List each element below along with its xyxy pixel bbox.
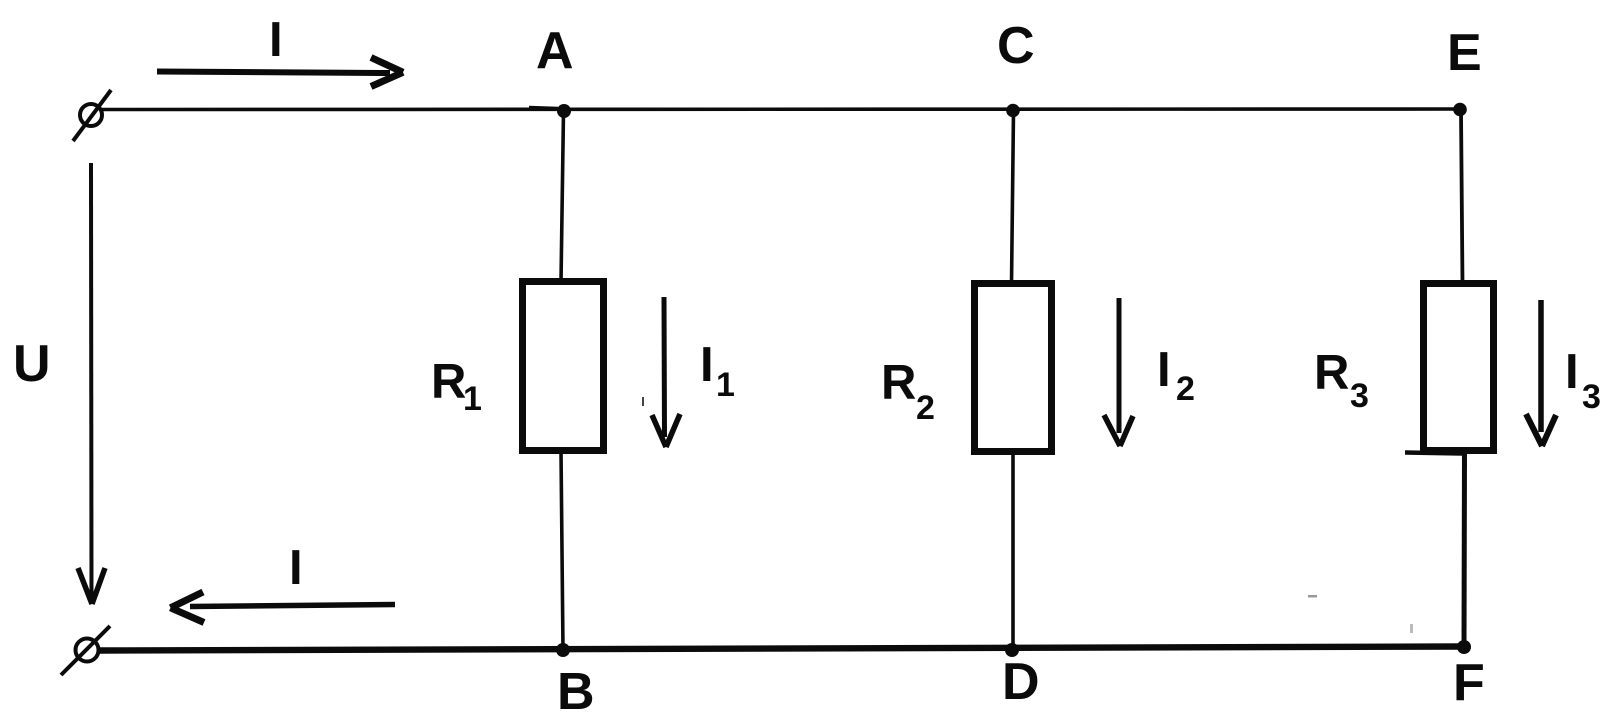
svg-text:A: A <box>536 22 574 80</box>
svg-text:R: R <box>431 355 466 409</box>
svg-text:B: B <box>557 663 595 721</box>
svg-text:I: I <box>700 338 714 392</box>
svg-text:I: I <box>1565 345 1579 399</box>
svg-text:I: I <box>289 541 303 595</box>
svg-text:E: E <box>1447 24 1482 82</box>
svg-text:D: D <box>1002 653 1040 711</box>
svg-text:R: R <box>1314 346 1349 400</box>
svg-text:2: 2 <box>916 389 935 427</box>
svg-text:2: 2 <box>1176 370 1195 408</box>
svg-text:C: C <box>997 17 1035 75</box>
svg-text:I: I <box>1157 343 1171 397</box>
svg-text:3: 3 <box>1582 378 1601 416</box>
svg-text:1: 1 <box>463 380 482 418</box>
svg-text:R: R <box>881 356 916 410</box>
svg-text:I: I <box>269 13 283 67</box>
svg-text:3: 3 <box>1350 377 1369 415</box>
svg-text:F: F <box>1453 654 1485 712</box>
svg-text:1: 1 <box>716 366 735 404</box>
svg-text:U: U <box>13 335 51 393</box>
